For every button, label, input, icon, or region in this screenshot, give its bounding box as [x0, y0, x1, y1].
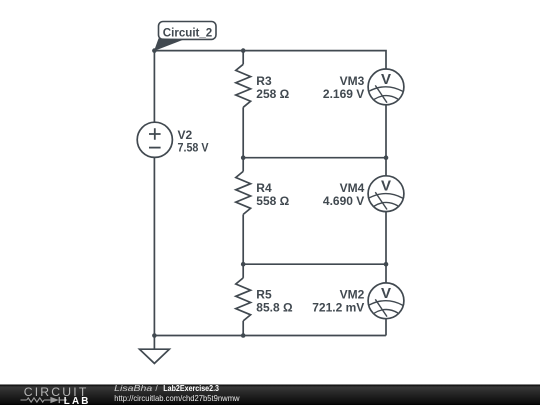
svg-text:Circuit_2: Circuit_2 — [163, 25, 213, 39]
junction dot node C right — [384, 262, 389, 267]
wire: R3 top stub — [242, 51, 244, 65]
ground — [140, 336, 170, 364]
junction dot node B left — [241, 155, 246, 160]
voltage source V2 — [137, 122, 172, 157]
svg-text:http://circuitlab.com/chd27b5t: http://circuitlab.com/chd27b5t9nwmw — [114, 393, 240, 403]
junction dot node B right — [384, 155, 389, 160]
resistor R4 — [236, 171, 251, 214]
wire: R4 top stub — [242, 158, 244, 172]
wire: VM4 bottom through node C to VM2 top — [385, 211, 387, 283]
voltmeter VM4 — [368, 176, 404, 212]
junction dot node C left — [241, 262, 246, 267]
footer bar — [0, 385, 540, 405]
junction dot R3 top — [241, 48, 246, 53]
junction dot node A — [152, 48, 157, 53]
svg-text:4.690 V: 4.690 V — [323, 194, 364, 208]
wire: R5 top stub — [242, 264, 244, 278]
wire: R4 bottom to node C — [242, 214, 244, 264]
svg-text:85.8 Ω: 85.8 Ω — [256, 301, 293, 315]
svg-text:LAB: LAB — [64, 396, 91, 405]
svg-text:2.169 V: 2.169 V — [323, 87, 364, 101]
footer author line — [114, 383, 219, 393]
svg-text:VM4: VM4 — [340, 181, 365, 195]
svg-text:721.2 mV: 721.2 mV — [312, 301, 364, 315]
wire: V2 bottom down to ground net — [153, 157, 155, 335]
CircuitLab logo schematic: wire-resistor-diode — [21, 397, 68, 403]
wire: node B horizontal tie — [243, 157, 386, 159]
wire: bottom ground net — [154, 335, 386, 337]
svg-text:VM3: VM3 — [340, 74, 365, 88]
wire: R5 bottom to ground net — [242, 321, 244, 336]
wire: VM2 bottom to ground net — [385, 319, 387, 336]
junction dot ground net R5 — [241, 333, 246, 338]
node label Circuit_2 — [154, 22, 216, 52]
svg-text:7.58 V: 7.58 V — [178, 141, 209, 155]
svg-text:LisaBha: LisaBha — [114, 383, 152, 393]
wire: left branch from node A down to V2 — [153, 51, 155, 123]
svg-text:558 Ω: 558 Ω — [256, 194, 289, 208]
voltmeter VM3 — [368, 69, 404, 105]
svg-text:R3: R3 — [256, 74, 272, 88]
voltmeter VM2 — [368, 283, 404, 319]
wire: node C horizontal tie — [243, 263, 386, 265]
svg-text:Lab2Exercise2.3: Lab2Exercise2.3 — [163, 383, 219, 393]
junction dot ground net left — [152, 333, 157, 338]
wire: VM3 bottom through node B to VM4 top — [385, 105, 387, 176]
svg-text:258 Ω: 258 Ω — [256, 87, 289, 101]
resistor R5 — [236, 278, 251, 321]
svg-text:VM2: VM2 — [340, 287, 365, 301]
resistor R3 — [236, 64, 251, 107]
wire: R3 bottom to node B — [242, 107, 244, 157]
wire: top net from node A to VM3 — [154, 51, 386, 70]
svg-text:R4: R4 — [256, 181, 272, 195]
svg-text:R5: R5 — [256, 287, 272, 301]
